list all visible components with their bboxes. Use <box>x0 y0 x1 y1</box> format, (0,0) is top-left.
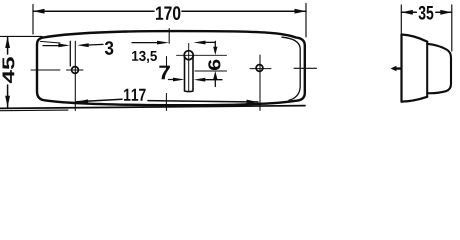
arrowhead 3 right (points left) <box>77 43 89 47</box>
arrowhead 6 up <box>213 71 217 79</box>
dimension 3 arrow shafts <box>43 44 103 45</box>
front view inner lens contour (right side) <box>282 37 300 100</box>
dimension 7 arrow shafts <box>169 79 223 81</box>
dimension 45 top extension line <box>0 35 42 37</box>
side view back edge <box>400 34 402 101</box>
arrowhead 45 up <box>5 37 10 48</box>
front view outer outline <box>37 31 305 105</box>
inner lens contour stub top-left <box>41 41 61 43</box>
left hole vertical centerline <box>74 41 76 110</box>
dimension 45 line <box>7 37 9 108</box>
arrowhead 117 left <box>77 99 89 104</box>
bottom-left faint stub line <box>0 109 68 112</box>
side view mounting tab <box>391 66 402 72</box>
label 6 (rotated) <box>208 60 220 70</box>
label 45 (rotated) <box>3 57 15 83</box>
side view lens seam <box>426 42 428 97</box>
arrowhead 117 right <box>247 100 259 105</box>
bottom reference line <box>0 106 305 109</box>
arrowhead 6 down <box>213 47 217 55</box>
keyhole vertical centerline <box>188 44 190 92</box>
vertical centerline of lamp <box>166 29 169 111</box>
keyhole horizontal centerline <box>177 54 227 56</box>
keyhole slot circle <box>184 51 193 60</box>
dimension 6 vertical arrow shafts <box>214 41 216 86</box>
label 170 <box>156 6 180 20</box>
dimension 170 line <box>33 10 306 12</box>
dimension 13,5 arrow shafts <box>132 41 215 43</box>
left mounting hole <box>72 67 79 74</box>
label 35 <box>419 6 434 20</box>
dimension 170 extension lines <box>33 4 306 38</box>
arrowhead 7 left (points right) <box>173 78 185 82</box>
keyhole slot sides <box>185 56 194 92</box>
side view lens dome <box>427 44 451 93</box>
dimension 35 line <box>401 11 452 13</box>
horizontal centerline <box>31 68 317 71</box>
arrowhead 13,5 left (points right) <box>157 41 169 45</box>
arrowhead 35 left <box>401 10 413 15</box>
label 117 <box>124 89 146 101</box>
arrowhead 170 left <box>33 9 45 14</box>
arrowhead 3 left (points right) <box>58 44 70 48</box>
dimension 35 extension lines <box>401 5 452 51</box>
arrowhead 35 right <box>440 10 452 15</box>
dimension 3 extension line <box>69 41 71 66</box>
side view top edge <box>402 35 428 42</box>
dimension 117 line <box>77 99 259 102</box>
label 3 <box>105 41 113 55</box>
arrowhead 170 right <box>295 9 307 14</box>
arrowhead 45 down <box>5 96 10 107</box>
arrowhead 7 right (points left) <box>194 78 206 82</box>
side view bottom edge <box>402 97 428 102</box>
right hole vertical centerline <box>259 55 261 111</box>
right mounting hole <box>256 65 263 72</box>
label 13,5 <box>132 51 157 63</box>
label 7 <box>159 66 170 80</box>
arrowhead 13,5 right (points left) <box>194 41 206 45</box>
